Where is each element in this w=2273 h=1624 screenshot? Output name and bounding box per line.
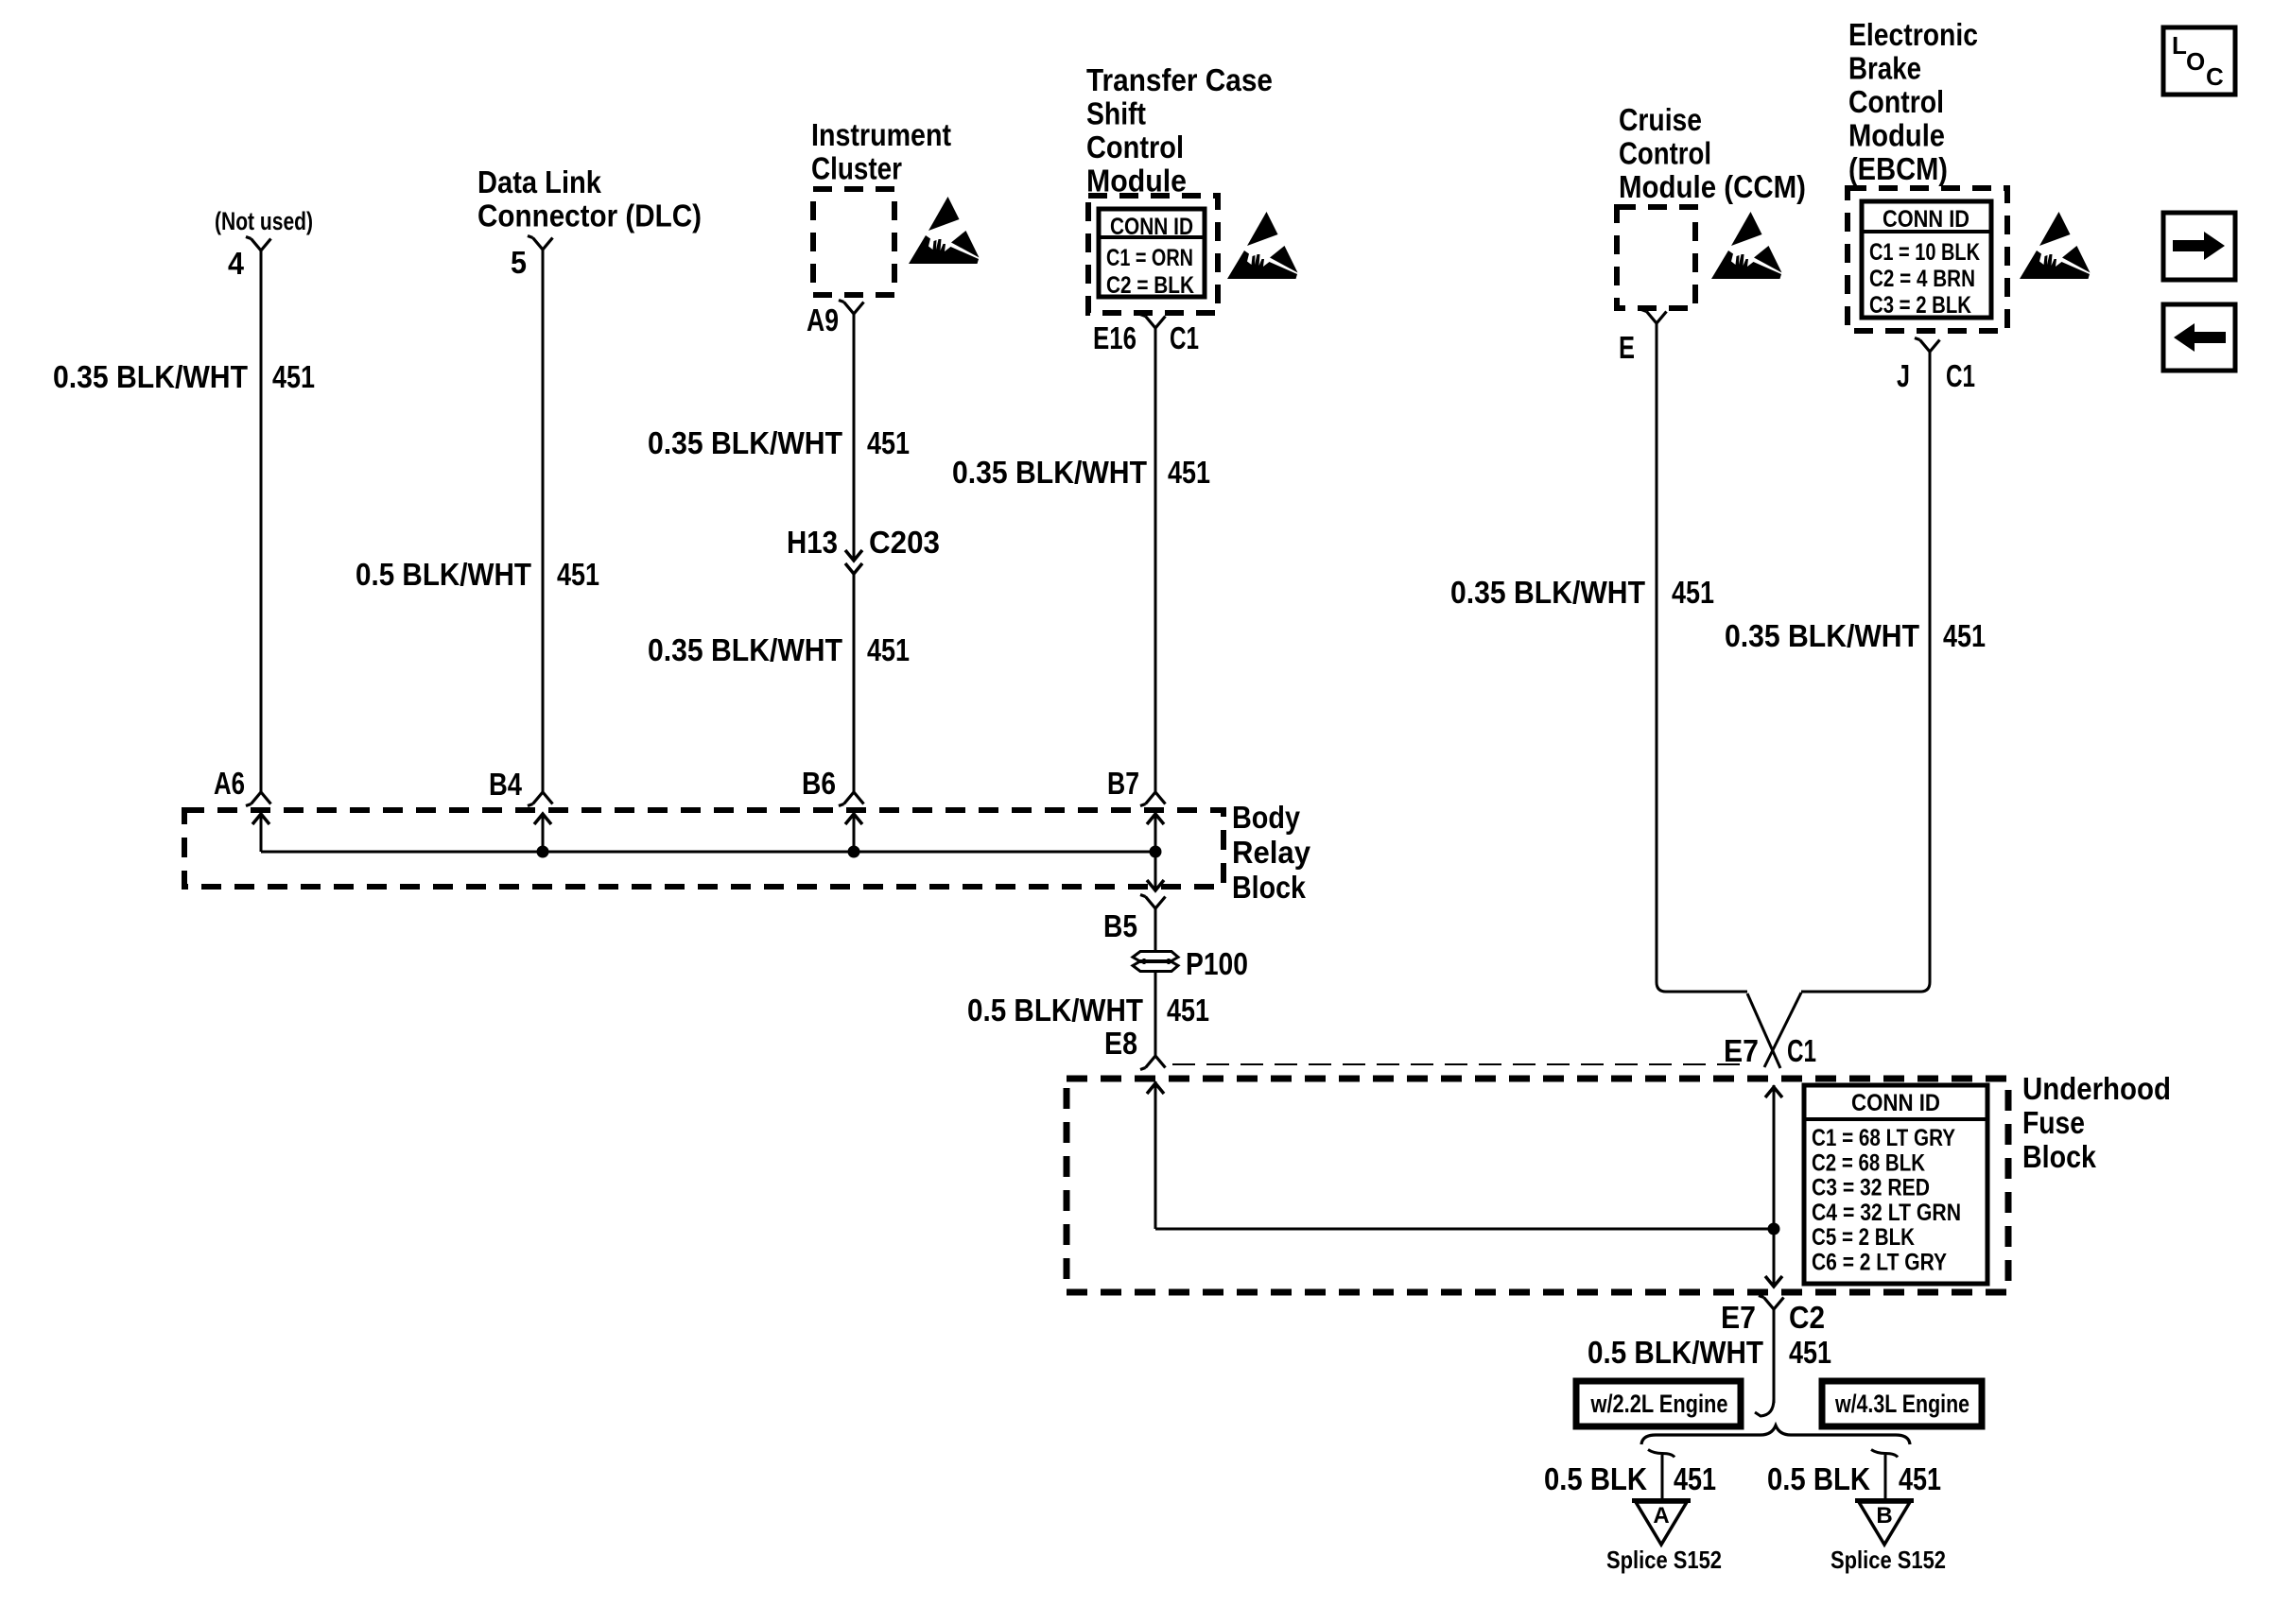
svg-text:H13: H13	[787, 525, 838, 560]
svg-text:CONN ID: CONN ID	[1851, 1090, 1940, 1116]
svg-text:C203: C203	[869, 525, 940, 560]
svg-text:0.5 BLK/WHT: 0.5 BLK/WHT	[356, 557, 531, 592]
svg-text:C2 = 68 BLK: C2 = 68 BLK	[1812, 1149, 1925, 1176]
svg-text:C3 = 2 BLK: C3 = 2 BLK	[1869, 292, 1971, 319]
svg-text:E8: E8	[1104, 1026, 1137, 1061]
svg-text:Control: Control	[1848, 84, 1944, 119]
svg-text:451: 451	[1899, 1461, 1941, 1496]
svg-text:Relay: Relay	[1232, 835, 1311, 870]
svg-text:P100: P100	[1186, 946, 1248, 981]
svg-text:O: O	[2186, 47, 2205, 76]
svg-text:0.35 BLK/WHT: 0.35 BLK/WHT	[1450, 575, 1645, 610]
svg-text:Brake: Brake	[1848, 51, 1921, 86]
svg-text:0.35 BLK/WHT: 0.35 BLK/WHT	[648, 425, 842, 460]
svg-text:A6: A6	[214, 766, 245, 801]
svg-text:L: L	[2172, 31, 2187, 60]
svg-text:C1 = ORN: C1 = ORN	[1106, 245, 1193, 271]
svg-text:0.5 BLK/WHT: 0.5 BLK/WHT	[967, 993, 1143, 1028]
svg-text:451: 451	[272, 359, 315, 394]
svg-text:451: 451	[1789, 1335, 1831, 1370]
svg-text:C1 = 68 LT GRY: C1 = 68 LT GRY	[1812, 1125, 1955, 1151]
svg-text:451: 451	[1674, 1461, 1716, 1496]
svg-text:B: B	[1876, 1503, 1892, 1529]
svg-text:C1: C1	[1787, 1033, 1816, 1068]
svg-text:J: J	[1897, 358, 1910, 393]
svg-text:CONN ID: CONN ID	[1110, 214, 1193, 240]
svg-text:B5: B5	[1103, 908, 1137, 943]
svg-text:C5 = 2 BLK: C5 = 2 BLK	[1812, 1224, 1915, 1251]
svg-text:Module: Module	[1086, 164, 1187, 199]
svg-text:E: E	[1619, 330, 1635, 365]
svg-text:A: A	[1653, 1503, 1669, 1529]
svg-text:C4 = 32 LT GRN: C4 = 32 LT GRN	[1812, 1200, 1961, 1226]
svg-text:E16: E16	[1093, 320, 1136, 355]
svg-text:Underhood: Underhood	[2022, 1071, 2171, 1106]
svg-text:C2 = 4 BRN: C2 = 4 BRN	[1869, 266, 1975, 292]
svg-text:451: 451	[1672, 575, 1714, 610]
svg-text:Body: Body	[1232, 800, 1301, 835]
svg-text:E7: E7	[1721, 1300, 1756, 1335]
svg-text:0.5 BLK: 0.5 BLK	[1544, 1461, 1647, 1496]
svg-text:451: 451	[1167, 993, 1209, 1028]
svg-text:Fuse: Fuse	[2022, 1105, 2085, 1140]
svg-text:E7: E7	[1724, 1033, 1759, 1068]
svg-text:Cluster: Cluster	[811, 151, 902, 186]
svg-text:Control: Control	[1619, 136, 1711, 171]
svg-text:Connector (DLC): Connector (DLC)	[477, 199, 702, 233]
svg-text:451: 451	[867, 425, 910, 460]
svg-text:CONN ID: CONN ID	[1883, 206, 1969, 233]
svg-text:0.35 BLK/WHT: 0.35 BLK/WHT	[952, 455, 1147, 490]
svg-text:C2 = BLK: C2 = BLK	[1106, 272, 1194, 299]
svg-text:451: 451	[1168, 455, 1210, 490]
svg-text:Module (CCM): Module (CCM)	[1619, 169, 1806, 204]
svg-text:Module: Module	[1848, 118, 1945, 153]
svg-text:Splice S152: Splice S152	[1831, 1546, 1946, 1574]
svg-text:(EBCM): (EBCM)	[1848, 151, 1948, 186]
svg-text:w/2.2L Engine: w/2.2L Engine	[1590, 1390, 1728, 1418]
svg-text:(Not used): (Not used)	[215, 207, 313, 235]
svg-text:Block: Block	[1232, 870, 1307, 905]
svg-text:A9: A9	[807, 302, 839, 337]
svg-text:451: 451	[557, 557, 599, 592]
svg-text:451: 451	[1943, 618, 1986, 653]
svg-text:C1: C1	[1170, 320, 1199, 355]
svg-text:Control: Control	[1086, 130, 1184, 164]
svg-text:Transfer Case: Transfer Case	[1086, 62, 1273, 97]
svg-text:Electronic: Electronic	[1848, 17, 1978, 52]
svg-text:0.5 BLK: 0.5 BLK	[1767, 1461, 1870, 1496]
svg-text:451: 451	[867, 632, 910, 667]
svg-text:Block: Block	[2022, 1139, 2097, 1174]
svg-text:C: C	[2206, 62, 2224, 91]
svg-text:4: 4	[228, 246, 245, 281]
svg-text:Shift: Shift	[1086, 96, 1146, 131]
svg-text:5: 5	[511, 245, 527, 280]
svg-text:w/4.3L Engine: w/4.3L Engine	[1834, 1390, 1969, 1418]
svg-text:B6: B6	[802, 766, 836, 801]
svg-text:B4: B4	[489, 767, 523, 802]
svg-text:0.35 BLK/WHT: 0.35 BLK/WHT	[53, 359, 248, 394]
svg-text:Splice S152: Splice S152	[1606, 1546, 1722, 1574]
svg-text:C6 = 2 LT GRY: C6 = 2 LT GRY	[1812, 1250, 1947, 1276]
svg-text:Instrument: Instrument	[811, 117, 951, 152]
svg-text:Cruise: Cruise	[1619, 102, 1702, 137]
svg-text:C1 = 10 BLK: C1 = 10 BLK	[1869, 239, 1980, 266]
svg-text:0.35 BLK/WHT: 0.35 BLK/WHT	[1725, 618, 1919, 653]
svg-text:B7: B7	[1107, 766, 1139, 801]
svg-text:0.5 BLK/WHT: 0.5 BLK/WHT	[1588, 1335, 1763, 1370]
svg-text:Data Link: Data Link	[477, 164, 602, 199]
svg-text:C2: C2	[1789, 1300, 1825, 1335]
svg-text:C3 = 32 RED: C3 = 32 RED	[1812, 1175, 1930, 1201]
svg-text:C1: C1	[1946, 358, 1975, 393]
svg-text:0.35 BLK/WHT: 0.35 BLK/WHT	[648, 632, 842, 667]
